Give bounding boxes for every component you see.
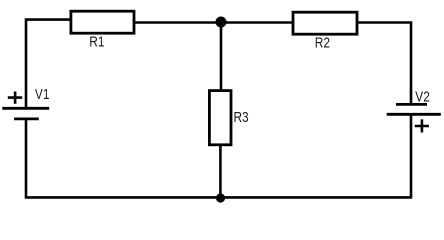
svg-text:R3: R3 bbox=[233, 109, 248, 125]
node A (top junction dot) bbox=[216, 17, 227, 28]
wire center-lower: R3 to node B bbox=[219, 145, 222, 199]
svg-text:R1: R1 bbox=[89, 33, 104, 49]
wire center-upper: node A to R3 bbox=[220, 21, 223, 91]
resistor R2 bbox=[293, 12, 357, 34]
battery V2 plus sign bbox=[415, 119, 429, 132]
resistor R3 bbox=[209, 91, 231, 145]
wire right-lower: V2 to bottom wire bbox=[410, 114, 413, 198]
resistor R1 bbox=[71, 11, 134, 33]
battery V2 short plate bbox=[396, 103, 427, 106]
wire top-right: R2 to right corner, down to V2 bbox=[356, 23, 411, 106]
battery V1 plus sign bbox=[8, 92, 22, 104]
wire bottom: full width through node B bbox=[25, 196, 412, 199]
wire top-left: left corner to R1 bbox=[26, 20, 71, 108]
svg-text:V2: V2 bbox=[415, 88, 430, 104]
battery V1 short plate bbox=[14, 118, 39, 121]
svg-text:R2: R2 bbox=[315, 34, 330, 50]
wire left-lower: V1 to bottom wire bbox=[25, 118, 28, 197]
wire top-middle: R1 to R2 through node A bbox=[134, 21, 294, 24]
node B (bottom junction dot) bbox=[216, 193, 225, 202]
svg-text:V1: V1 bbox=[35, 86, 50, 102]
battery V2 long plate bbox=[387, 113, 441, 116]
battery V1 long plate bbox=[2, 107, 49, 110]
